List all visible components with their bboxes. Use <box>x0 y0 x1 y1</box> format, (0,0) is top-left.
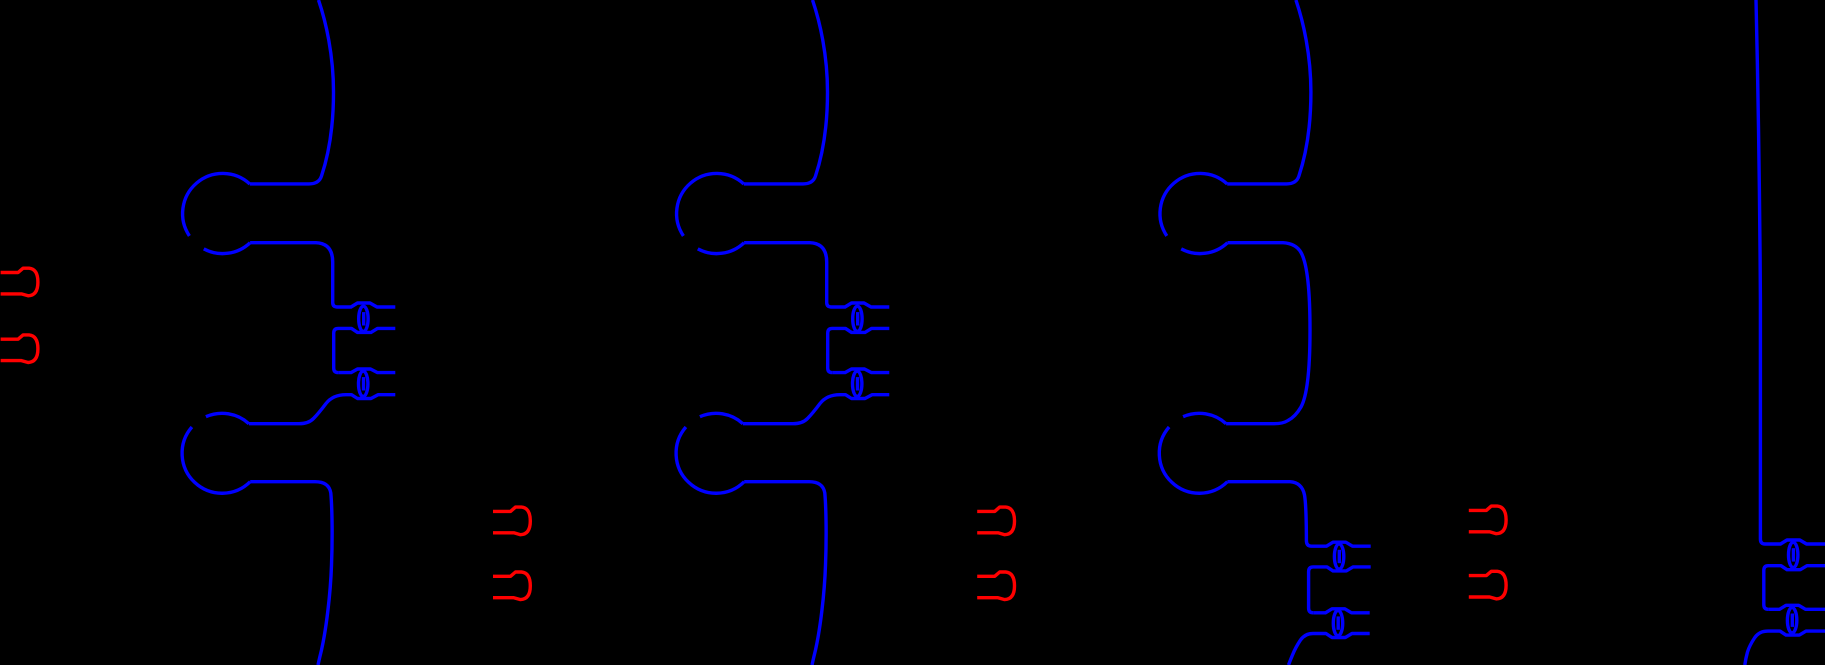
wire: U1 top entry arc <box>250 0 334 184</box>
coupler X2 center tick <box>362 377 365 390</box>
red hairpin H2a (pair P2) <box>493 507 530 535</box>
loop: U3 top hairpin loop <box>1160 173 1227 235</box>
wire: U3 coupler X5 upper line with bump <box>1312 542 1371 546</box>
wire: U3 top entry arc <box>1227 0 1311 184</box>
red hairpin H4b (pair P4) <box>1469 571 1506 599</box>
wire: U3 middle stem arc <box>1226 243 1310 424</box>
wire: U1 stem from top loop down to coupler X1 <box>250 243 337 307</box>
coupler X4 center tick <box>856 377 859 390</box>
coupler X1 ellipse <box>359 306 368 331</box>
coupler X5 center tick <box>1338 550 1341 563</box>
wire: U2 top entry arc <box>744 0 828 184</box>
wire: U3 coupler X6 lower line and exit tail <box>1289 634 1370 665</box>
coupler X1 center tick <box>362 312 365 325</box>
coupler X8 ellipse <box>1787 608 1796 633</box>
red hairpin H1b (pair P1, cut at left edge) <box>1 335 38 363</box>
red hairpin H1a (pair P1, cut at left edge) <box>1 268 38 296</box>
red hairpin H2b (pair P2) <box>493 572 530 600</box>
wire: U3 descent into coupler X5 <box>1227 482 1311 547</box>
wire: U1 coupler X2 lower line curving into bottom hairpin <box>249 395 395 424</box>
red hairpin H3a (pair P3) <box>977 507 1014 535</box>
loop: U1 bottom hairpin loop main arc <box>182 427 250 493</box>
wire: U2 coupler X3 lower line with bump <box>828 328 890 372</box>
coupler X2 ellipse <box>359 371 368 396</box>
loop: U2 bottom hairpin loop main arc <box>676 427 744 493</box>
wire: U1 coupler X2 upper line with bump <box>338 369 395 373</box>
coupler X6 center tick <box>1336 616 1339 629</box>
wire: U3 coupler X5 lower line with bump <box>1309 567 1371 613</box>
coupler X3 center tick <box>856 312 859 325</box>
wire: U2 coupler X4 lower line curving into bottom hairpin <box>743 395 889 424</box>
wire: U2 stem from top loop down to coupler X3 <box>744 243 831 307</box>
unit U3 stem-loop structure (smooth middle stem, couplers at bottom) <box>1159 0 1370 665</box>
loop: U3 top hairpin loop lower arc <box>1181 243 1227 254</box>
coupler X6 ellipse <box>1333 611 1342 636</box>
coupler X5 ellipse <box>1334 544 1343 569</box>
wire: U4 coupler X7 lower line with bump <box>1764 566 1825 610</box>
wire: U2 bottom exit arc <box>744 482 826 665</box>
loop: U3 bottom hairpin loop upper arc <box>1183 413 1226 423</box>
wire: U4 coupler X8 upper line with bump <box>1768 605 1825 609</box>
red hairpin H3b (pair P3) <box>977 572 1014 600</box>
coupler X8 center tick <box>1791 614 1794 627</box>
loop: U3 bottom hairpin loop main arc <box>1159 427 1227 493</box>
loop: U1 top hairpin loop (open circle) <box>183 173 250 235</box>
wire: U4 coupler X8 lower line and exit tail <box>1745 631 1825 665</box>
red hairpin H4a (pair P4) <box>1469 506 1506 534</box>
wire: U1 coupler X1 upper line with bump <box>338 303 396 307</box>
wire: U3 coupler X6 upper line with bump <box>1313 609 1370 613</box>
wire: U2 coupler X3 upper line with bump <box>832 303 890 307</box>
wire: U4 coupler X7 upper line with bump <box>1765 540 1825 544</box>
coupler X4 ellipse <box>853 371 862 396</box>
loop: U1 top hairpin loop lower arc <box>204 243 250 254</box>
wire: U4 long vertical strand <box>1756 0 1765 544</box>
coupler X7 ellipse <box>1789 542 1798 567</box>
coupler X7 center tick <box>1792 548 1795 561</box>
wire: U1 coupler X1 lower line with bump <box>334 328 396 372</box>
unit U2 stem-loop structure (copy of U1 shifted +494) <box>676 0 889 665</box>
wire: U2 coupler X4 upper line with bump <box>832 369 889 373</box>
loop: U2 top hairpin loop lower arc <box>698 243 744 254</box>
coupler X3 ellipse <box>853 306 862 331</box>
wire: U1 bottom exit arc <box>250 482 332 665</box>
loop: U2 bottom hairpin loop upper arc <box>700 413 743 423</box>
unit U1 stem-loop structure <box>182 0 395 665</box>
unit U4 long strand with couplers at bottom right <box>1745 0 1825 665</box>
loop: U2 top hairpin loop <box>677 173 744 235</box>
loop: U1 bottom hairpin loop upper arc <box>206 413 249 423</box>
